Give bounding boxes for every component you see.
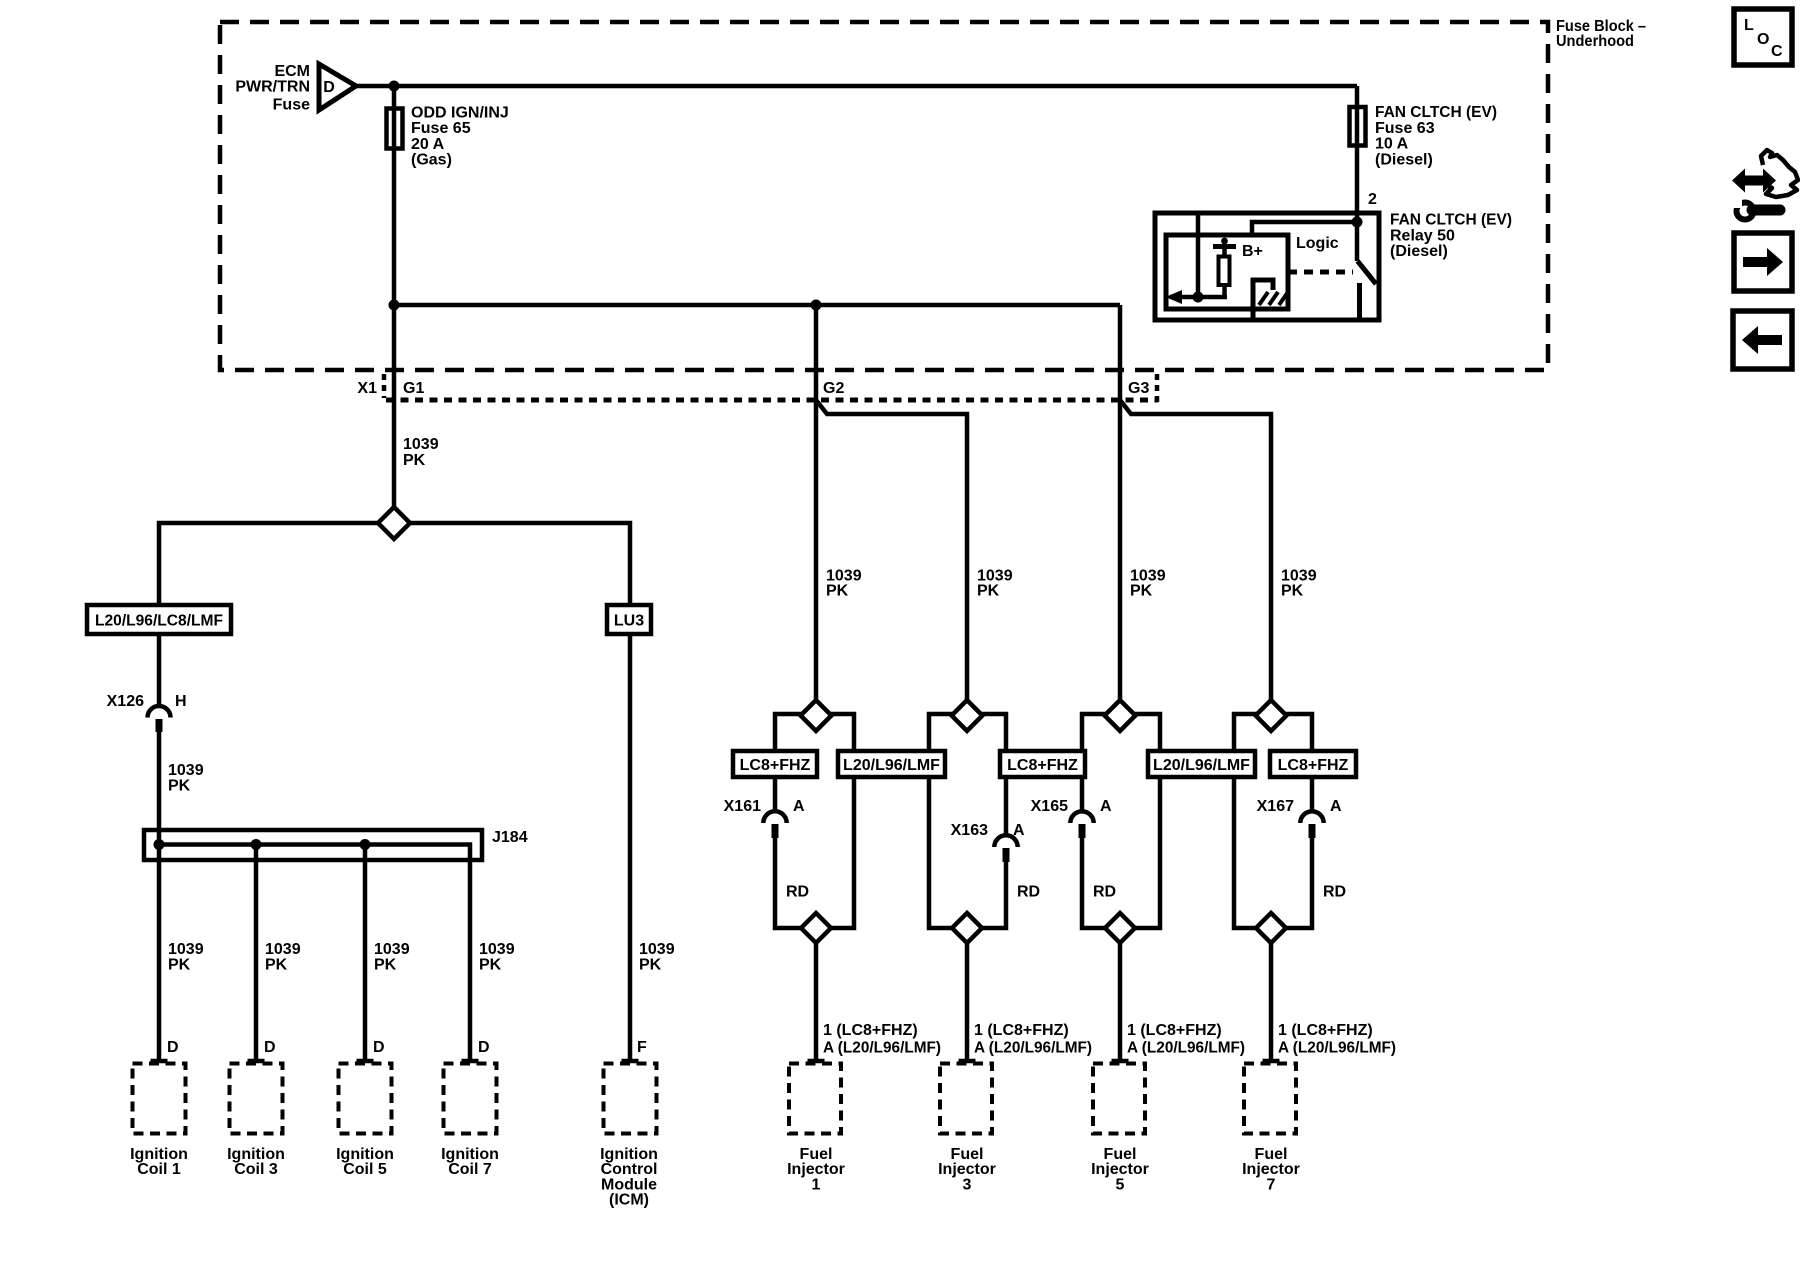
svg-text:PK: PK <box>479 956 502 973</box>
junction: relay pin 2 <box>1352 217 1363 228</box>
pin labels injector 3 <box>974 1022 1092 1057</box>
wire label 1039 PK (G1) <box>403 436 439 469</box>
label Fuel Injector 1 <box>787 1146 845 1193</box>
wire label 1039 PK (X126) <box>168 762 204 795</box>
svg-text:X165: X165 <box>1031 798 1068 815</box>
svg-text:X167: X167 <box>1257 798 1294 815</box>
splice pack J184 <box>144 830 482 860</box>
splice diamond injector 5 bottom <box>1105 913 1135 943</box>
resistor (relay coil) <box>1219 257 1230 286</box>
label fan clutch fuse <box>1375 104 1497 168</box>
splice diamond injector 3 top <box>952 700 983 731</box>
label Ignition Coil 3 <box>227 1146 285 1178</box>
wire: X126 to J184 <box>157 732 162 845</box>
wire: resistor to return line <box>1222 285 1227 297</box>
wire end crossbar (injector 3) <box>959 1059 976 1064</box>
wire: injector 1 left branch (with connector X161) <box>775 714 802 811</box>
wire label 1039 PK (ICM) <box>639 941 675 973</box>
svg-text:X161: X161 <box>724 798 761 815</box>
svg-text:PK: PK <box>639 956 662 973</box>
ignition coil 7 dashed box <box>444 1064 497 1134</box>
svg-text:A (L20/L96/LMF): A (L20/L96/LMF) <box>974 1040 1092 1057</box>
engine code box L20/L96/LMF at x=838 <box>838 751 945 777</box>
wire: injector 3 left branch <box>929 714 953 928</box>
svg-text:X126: X126 <box>107 693 144 710</box>
svg-text:ODD IGN/INJ: ODD IGN/INJ <box>411 104 509 121</box>
svg-text:A (L20/L96/LMF): A (L20/L96/LMF) <box>1127 1040 1245 1057</box>
fuel injector 5 dashed box <box>1093 1064 1145 1134</box>
relay FAN CLTCH (EV) Relay 50 box <box>1155 213 1379 320</box>
junction: bus at G1 <box>389 300 400 311</box>
svg-text:G3: G3 <box>1128 380 1149 397</box>
svg-text:2: 2 <box>1368 191 1377 208</box>
label Fuel Injector 7 <box>1242 1146 1300 1193</box>
power source triangle D (ECM PWR/TRN Fuse) <box>319 64 356 110</box>
wire: relay pin2 to logic box <box>1252 222 1357 235</box>
fuel injector 1 dashed box <box>789 1064 841 1134</box>
engine code box LU3 <box>607 605 651 634</box>
svg-text:PK: PK <box>374 956 397 973</box>
engine code box LC8+FHZ at x=733 <box>733 751 817 777</box>
svg-text:LU3: LU3 <box>614 613 644 630</box>
svg-text:B+: B+ <box>1242 243 1263 260</box>
pin labels injector 5 <box>1127 1022 1245 1057</box>
junction: bus at G2 <box>811 300 822 311</box>
label X161 / A <box>724 798 805 815</box>
splice diamond injector 5 top <box>1105 700 1136 731</box>
label Ignition Control Module (ICM) <box>600 1146 658 1209</box>
label Fuel Injector 3 <box>938 1146 996 1193</box>
svg-text:(Diesel): (Diesel) <box>1390 243 1448 260</box>
wire end crossbar (injector 7) <box>1263 1059 1280 1064</box>
connector X163 pin A <box>994 835 1017 862</box>
label Ignition Coil 1 <box>130 1146 188 1178</box>
fuse FAN CLTCH (EV) Fuse 63 <box>1350 107 1366 146</box>
wire end crossbar (coil 5) <box>357 1059 374 1064</box>
wire: fan clutch fuse drop <box>1355 86 1360 261</box>
svg-text:F: F <box>637 1039 647 1056</box>
ground symbol in relay <box>1253 280 1288 319</box>
svg-text:RD: RD <box>1093 884 1116 901</box>
engine code box LC8+FHZ at x=1270 <box>1270 751 1356 777</box>
svg-text:D: D <box>264 1039 276 1056</box>
splice diamond injector 7 top <box>1256 700 1287 731</box>
svg-text:LC8+FHZ: LC8+FHZ <box>1007 757 1078 774</box>
svg-text:Fuse: Fuse <box>273 97 310 114</box>
wire: main feed from triangle D to fan clutch fuse <box>356 84 1357 89</box>
wire label 1039 PK (coil 5) <box>374 941 410 973</box>
svg-text:LC8+FHZ: LC8+FHZ <box>740 757 811 774</box>
wire: coil 5 drop <box>363 845 368 1062</box>
wire label 1039 PK (injector 7 feed) <box>1281 568 1317 600</box>
svg-text:C: C <box>1771 43 1783 60</box>
wire: injector 5 right branch <box>1134 714 1160 928</box>
wire: coil 1 drop <box>157 845 162 1062</box>
fuel injector 3 dashed box <box>940 1064 992 1134</box>
pin labels injector 1 <box>823 1022 941 1057</box>
wire label 1039 PK (coil 7) <box>479 941 515 973</box>
svg-text:Coil 3: Coil 3 <box>234 1161 278 1178</box>
navigation glyph (arrows and wrench) <box>1731 150 1798 220</box>
svg-text:O: O <box>1757 31 1769 48</box>
svg-text:G1: G1 <box>403 380 424 397</box>
svg-text:FAN CLTCH (EV): FAN CLTCH (EV) <box>1375 104 1497 121</box>
svg-text:20 A: 20 A <box>411 136 445 153</box>
connector X161 pin A <box>763 811 786 838</box>
svg-text:L20/L96/LMF: L20/L96/LMF <box>1153 757 1250 774</box>
wire: G3 branch to injector 7 feed <box>1120 400 1271 701</box>
wire: G2 drop <box>814 305 819 701</box>
svg-text:A: A <box>1330 798 1342 815</box>
svg-text:A: A <box>793 798 805 815</box>
ignition control module dashed box <box>604 1064 657 1134</box>
svg-text:(ICM): (ICM) <box>609 1192 649 1209</box>
svg-text:Relay 50: Relay 50 <box>1390 227 1455 244</box>
svg-text:1: 1 <box>812 1176 821 1193</box>
svg-text:PK: PK <box>403 452 426 469</box>
fuse block underhood dashed box <box>220 22 1548 370</box>
wire: injector 7 right branch (with connector X167) <box>1285 714 1312 811</box>
label X165 / A <box>1031 798 1112 815</box>
svg-text:PK: PK <box>168 956 191 973</box>
svg-text:D: D <box>323 79 335 96</box>
svg-text:H: H <box>175 693 187 710</box>
label X167 / A <box>1257 798 1342 815</box>
splice diamond S1 <box>378 507 410 539</box>
svg-text:Logic: Logic <box>1296 235 1339 252</box>
svg-text:PK: PK <box>168 778 191 795</box>
svg-text:1039: 1039 <box>403 436 439 453</box>
svg-text:1 (LC8+FHZ): 1 (LC8+FHZ) <box>1278 1022 1373 1039</box>
svg-text:L20/L96/LC8/LMF: L20/L96/LC8/LMF <box>95 613 223 630</box>
wire: G2 branch to injector 3 feed <box>816 400 967 701</box>
wire: injector 5 stem <box>1118 943 1123 1061</box>
label Fuel Injector 5 <box>1091 1146 1149 1193</box>
connector band dotted line <box>386 398 1158 403</box>
svg-text:D: D <box>478 1039 490 1056</box>
svg-text:L: L <box>1744 17 1754 34</box>
wire label 1039 PK (coil 1) <box>168 941 204 973</box>
svg-text:A: A <box>1100 798 1112 815</box>
svg-text:1 (LC8+FHZ): 1 (LC8+FHZ) <box>1127 1022 1222 1039</box>
relay label <box>1390 212 1512 261</box>
svg-text:RD: RD <box>1017 884 1040 901</box>
ignition coil 1 dashed box <box>133 1064 186 1134</box>
arrow right box <box>1734 233 1792 291</box>
svg-text:Coil 7: Coil 7 <box>448 1161 492 1178</box>
svg-text:3: 3 <box>963 1176 972 1193</box>
label Ignition Coil 5 <box>336 1146 394 1178</box>
svg-text:X1: X1 <box>357 380 377 397</box>
relay control dashed line <box>1288 270 1353 275</box>
svg-text:(Gas): (Gas) <box>411 152 452 169</box>
wire: box to X126 <box>157 634 162 706</box>
fuse block label <box>1556 18 1646 50</box>
svg-text:5: 5 <box>1116 1176 1125 1193</box>
wire: G3 drop <box>1118 305 1123 701</box>
wire: injector 5 left branch (with connector X165) <box>1082 714 1106 811</box>
svg-text:PK: PK <box>1130 583 1153 600</box>
svg-text:D: D <box>167 1039 179 1056</box>
wire: ODD fuse drop G1 <box>392 86 397 507</box>
LOC navigation box <box>1734 9 1792 65</box>
svg-text:PWR/TRN: PWR/TRN <box>235 79 310 96</box>
engine code box L20/L96/LMF at x=1148 <box>1148 751 1255 777</box>
svg-text:1 (LC8+FHZ): 1 (LC8+FHZ) <box>823 1022 918 1039</box>
svg-text:LC8+FHZ: LC8+FHZ <box>1278 757 1349 774</box>
ignition coil 5 dashed box <box>339 1064 392 1134</box>
wire label 1039 PK (coil 3) <box>265 941 301 973</box>
wire: ICM drop <box>628 634 633 1061</box>
splice diamond injector 3 bottom <box>952 913 982 943</box>
wire: coil return with arrow <box>1166 290 1228 304</box>
label Ignition Coil 7 <box>441 1146 499 1178</box>
J184 internal bus <box>159 845 470 1062</box>
wire end crossbar (coil 1) <box>151 1059 168 1064</box>
wire: coil 3 drop <box>254 845 259 1062</box>
relay logic inner box <box>1166 235 1288 309</box>
B+ symbol <box>1213 238 1236 257</box>
pin labels injector 7 <box>1278 1022 1396 1057</box>
wire end crossbar (injector 1) <box>808 1059 825 1064</box>
label X163 / A <box>951 822 1025 839</box>
wire: injector 3 right branch (with connector X163) <box>981 714 1006 835</box>
svg-text:A (L20/L96/LMF): A (L20/L96/LMF) <box>823 1040 941 1057</box>
wire label 1039 PK (injector 3 feed) <box>977 568 1013 600</box>
svg-text:A: A <box>1013 822 1025 839</box>
wire end crossbar (injector 5) <box>1112 1059 1129 1064</box>
engine code box L20/L96/LC8/LMF <box>87 605 231 634</box>
svg-text:G2: G2 <box>823 380 844 397</box>
svg-text:RD: RD <box>786 884 809 901</box>
wire end crossbar (coil 7) <box>462 1059 479 1064</box>
svg-text:FAN CLTCH (EV): FAN CLTCH (EV) <box>1390 212 1512 229</box>
wire end crossbar (coil 3) <box>248 1059 265 1064</box>
relay switch blade <box>1358 261 1377 284</box>
svg-text:Fuse 65: Fuse 65 <box>411 120 471 137</box>
svg-text:Underhood: Underhood <box>1556 33 1634 50</box>
wire: bus to G2/G3 <box>394 303 1120 308</box>
label X126 / H <box>107 693 187 710</box>
G3 tick <box>1155 374 1160 402</box>
ignition coil 3 dashed box <box>230 1064 283 1134</box>
engine code box LC8+FHZ at x=1000 <box>1000 751 1085 777</box>
fuse ODD IGN/INJ Fuse 65 <box>387 109 403 149</box>
wire: injector 7 left branch <box>1234 714 1257 928</box>
wire: relay coil feed <box>1196 213 1201 297</box>
svg-text:D: D <box>373 1039 385 1056</box>
splice diamond injector 1 top <box>801 700 832 731</box>
wire: injector 1 stem <box>814 943 819 1061</box>
svg-text:10 A: 10 A <box>1375 136 1409 153</box>
wire label 1039 PK (injector 5 feed) <box>1130 568 1166 600</box>
svg-text:Fuse 63: Fuse 63 <box>1375 120 1435 137</box>
X1 tick <box>382 374 387 398</box>
ECM PWR/TRN Fuse label <box>235 63 310 114</box>
svg-text:L20/L96/LMF: L20/L96/LMF <box>843 757 940 774</box>
wire: splice to left engine-code box <box>159 523 381 605</box>
svg-text:PK: PK <box>826 583 849 600</box>
junction: coil return <box>1193 292 1204 303</box>
wire: injector 3 stem <box>965 943 970 1061</box>
wire label 1039 PK (injector 1 feed) <box>826 568 862 600</box>
svg-text:7: 7 <box>1267 1176 1276 1193</box>
connector X165 pin A <box>1070 811 1093 838</box>
splice diamond injector 1 bottom <box>801 913 831 943</box>
svg-text:PK: PK <box>977 583 1000 600</box>
svg-text:J184: J184 <box>492 829 528 846</box>
wire: injector 1 right branch <box>830 714 854 928</box>
arrow left box <box>1733 311 1792 369</box>
svg-text:PK: PK <box>1281 583 1304 600</box>
svg-text:A (L20/L96/LMF): A (L20/L96/LMF) <box>1278 1040 1396 1057</box>
svg-text:1039: 1039 <box>168 762 204 779</box>
svg-text:PK: PK <box>265 956 288 973</box>
label ODD IGN/INJ fuse <box>411 104 509 168</box>
svg-text:1 (LC8+FHZ): 1 (LC8+FHZ) <box>974 1022 1069 1039</box>
wire end crossbar (ICM) <box>622 1059 639 1064</box>
splice diamond injector 7 bottom <box>1256 913 1286 943</box>
relay switch contact <box>1357 283 1362 320</box>
connector X126 pin H <box>148 706 171 732</box>
svg-text:Coil 5: Coil 5 <box>343 1161 387 1178</box>
fuel injector 7 dashed box <box>1244 1064 1296 1134</box>
wire: injector 7 stem <box>1269 943 1274 1061</box>
svg-text:ECM: ECM <box>274 63 310 80</box>
svg-text:(Diesel): (Diesel) <box>1375 151 1433 168</box>
wire: splice to LU3 box <box>407 523 630 605</box>
junction dots J184 <box>154 839 371 850</box>
junction: feed / ODD fuse <box>389 81 400 92</box>
svg-text:RD: RD <box>1323 884 1346 901</box>
connector X167 pin A <box>1300 811 1323 838</box>
svg-text:Coil 1: Coil 1 <box>137 1161 181 1178</box>
svg-text:X163: X163 <box>951 822 988 839</box>
